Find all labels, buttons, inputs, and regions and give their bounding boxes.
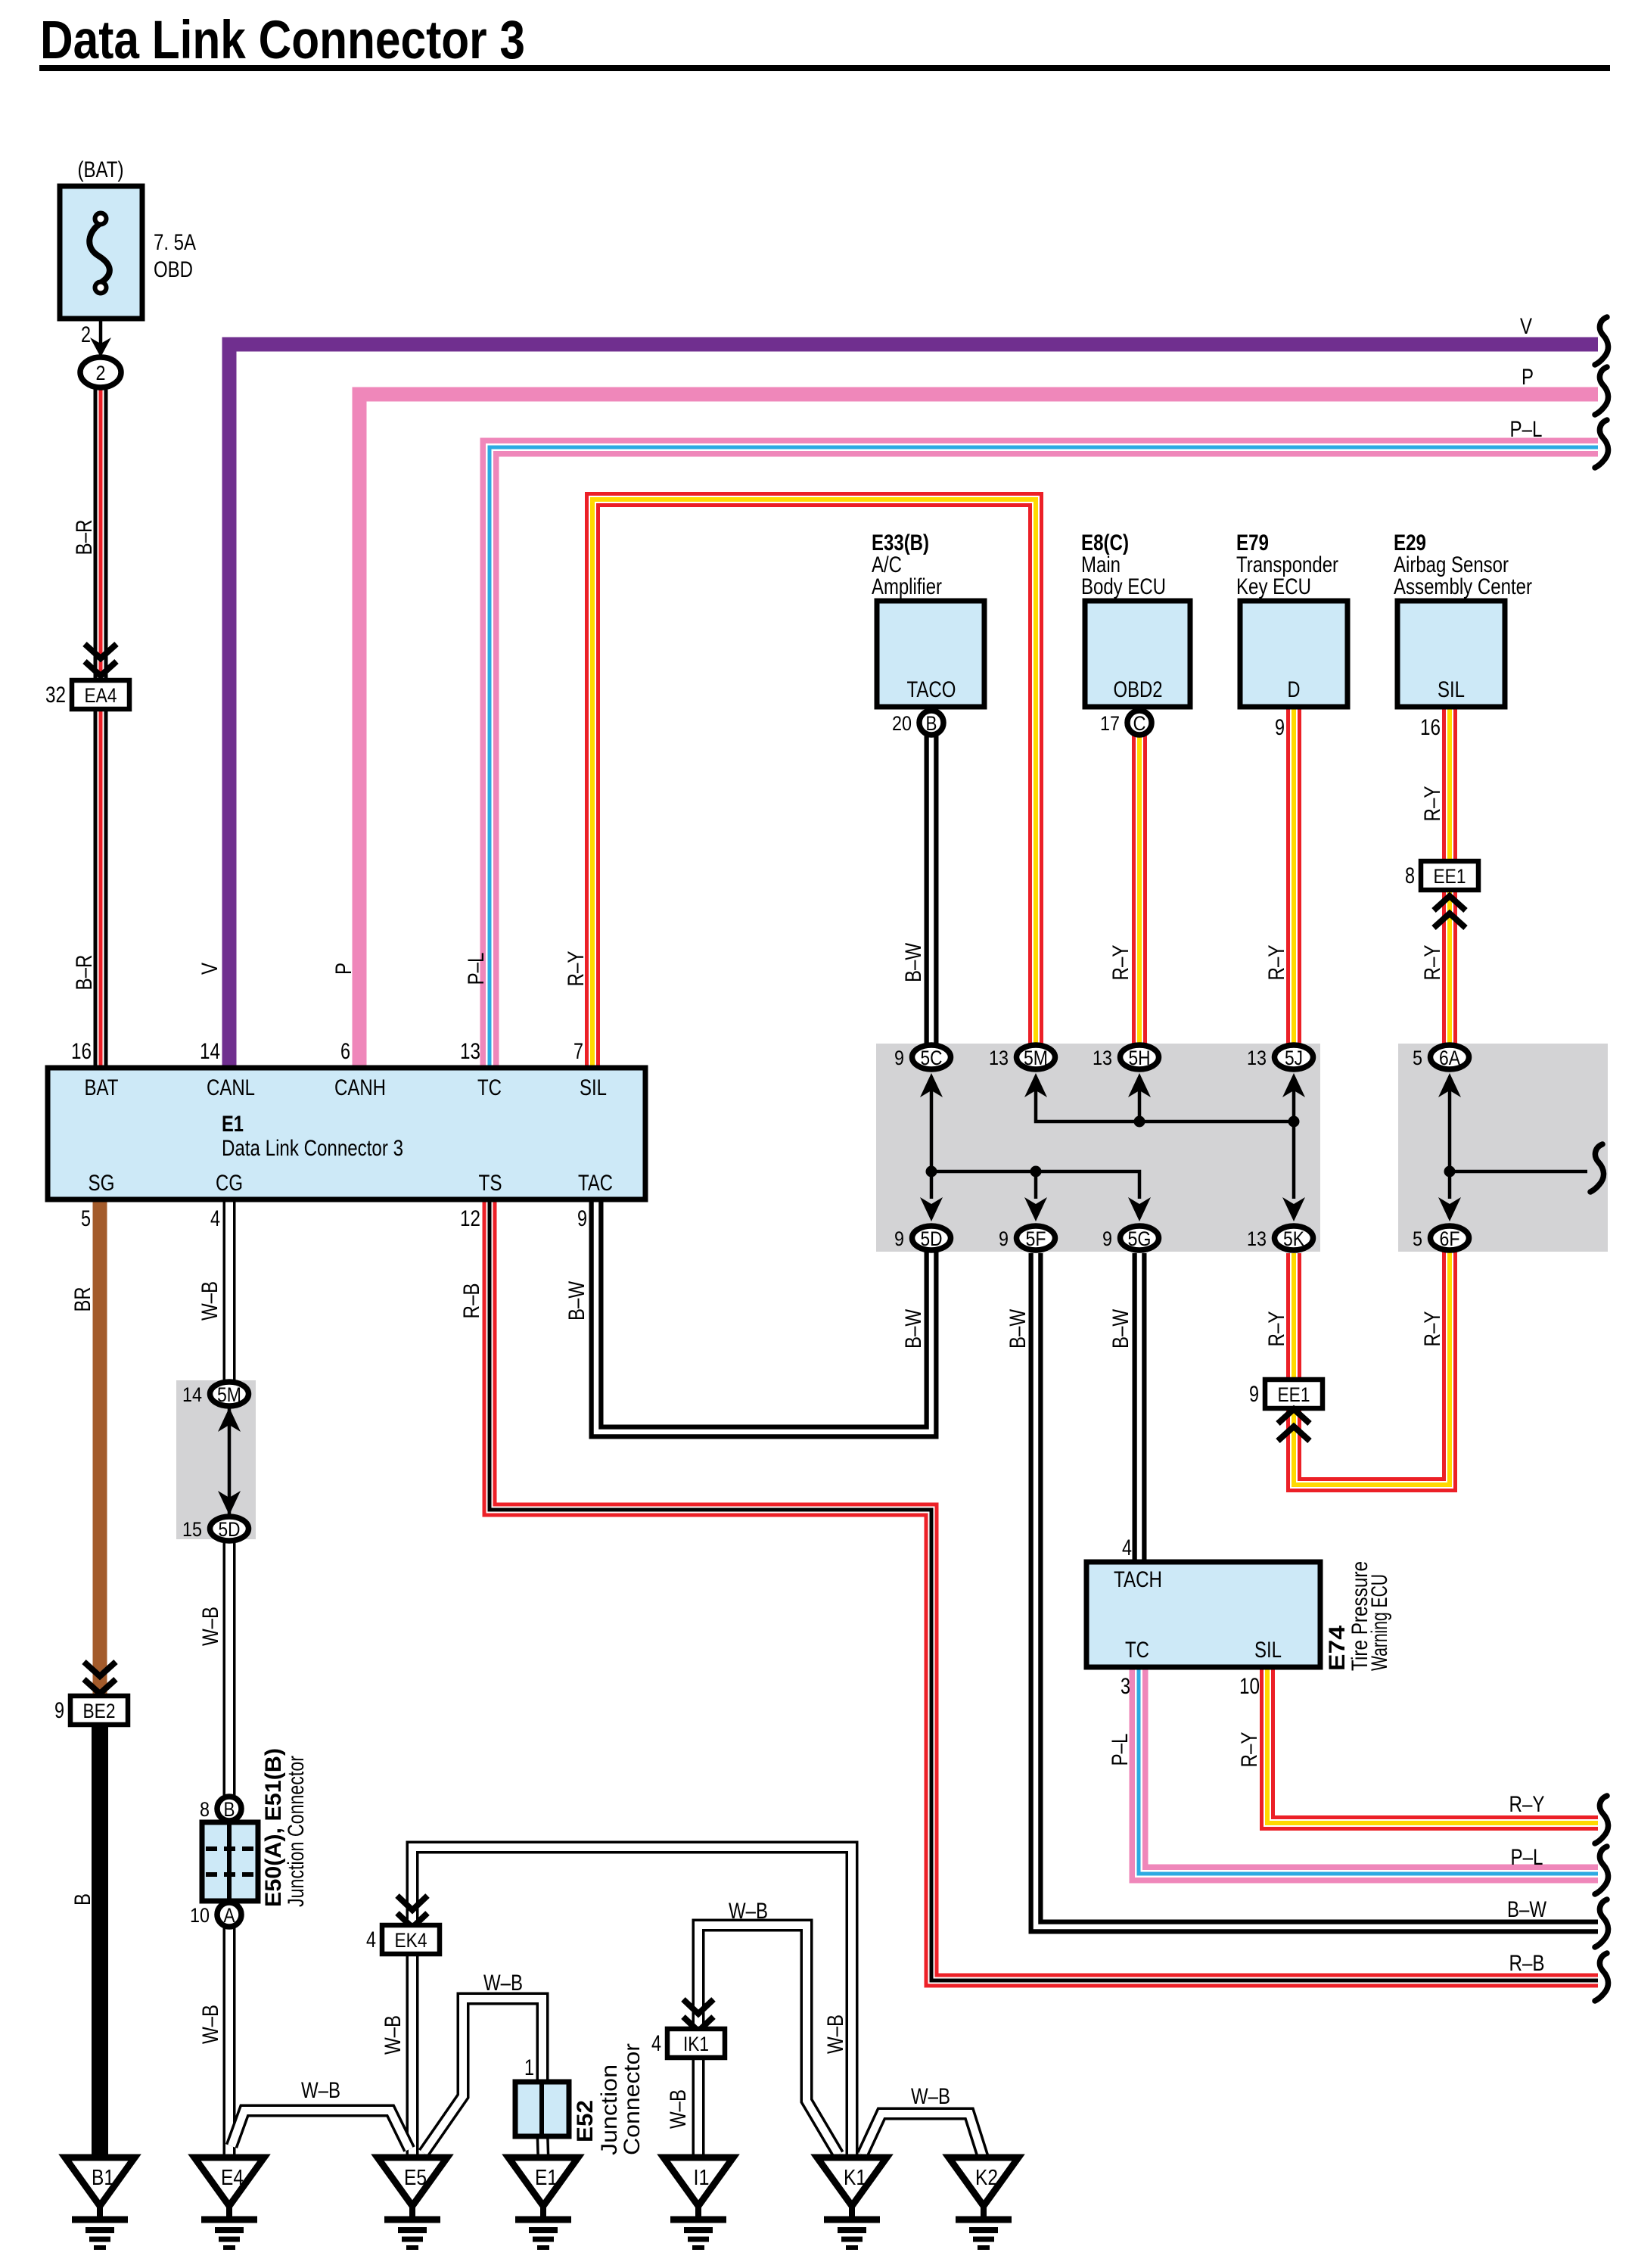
page brace R-Y bbox=[1595, 1796, 1609, 1843]
wire R-Y 5K via EE1 to 6F bbox=[1294, 1249, 1450, 1485]
svg-text:R–Y: R–Y bbox=[1108, 945, 1133, 981]
svg-text:B–W: B–W bbox=[564, 1280, 589, 1321]
svg-text:R–Y: R–Y bbox=[1264, 1311, 1289, 1347]
wire W-B ground E4 to E5 link bbox=[232, 2111, 409, 2149]
arrow into connector 2 bbox=[90, 338, 111, 357]
svg-text:R–B: R–B bbox=[459, 1283, 484, 1319]
svg-text:B: B bbox=[224, 1798, 235, 1821]
svg-text:CANH: CANH bbox=[334, 1075, 386, 1100]
wire P CANH pin 6 to right edge bbox=[359, 394, 1598, 1068]
svg-text:W–B: W–B bbox=[729, 1899, 768, 1924]
svg-text:EA4: EA4 bbox=[85, 684, 117, 707]
svg-text:12: 12 bbox=[460, 1206, 480, 1231]
svg-text:E4: E4 bbox=[221, 2166, 244, 2190]
svg-text:14: 14 bbox=[182, 1383, 202, 1406]
svg-text:B–W: B–W bbox=[901, 1308, 926, 1349]
svg-text:Key ECU: Key ECU bbox=[1236, 574, 1311, 599]
chevron arrows below EE1 (8) bbox=[1434, 896, 1466, 910]
wire B-R EA4 to E1 BAT pin 16 bbox=[94, 708, 108, 1068]
svg-text:9: 9 bbox=[894, 1227, 904, 1250]
svg-text:Body ECU: Body ECU bbox=[1081, 574, 1166, 599]
connector 5K bbox=[1275, 1226, 1313, 1250]
svg-text:15: 15 bbox=[182, 1518, 202, 1541]
svg-text:5: 5 bbox=[81, 1206, 91, 1231]
svg-text:1: 1 bbox=[524, 2055, 534, 2080]
svg-text:7. 5A: 7. 5A bbox=[154, 230, 196, 255]
svg-text:4: 4 bbox=[366, 1927, 376, 1952]
wire P-L E74 TC pin 3 to right edge bbox=[1139, 1667, 1598, 1874]
svg-text:9: 9 bbox=[894, 1047, 904, 1069]
ground E1 bbox=[508, 2158, 578, 2206]
svg-text:17: 17 bbox=[1100, 712, 1120, 735]
svg-text:CG: CG bbox=[216, 1171, 243, 1196]
bus link 5C to 5D/5F/5G bbox=[931, 1090, 1139, 1199]
svg-text:SG: SG bbox=[89, 1171, 115, 1196]
bus link 5M to 5H/5J/5K bbox=[1036, 1090, 1294, 1199]
svg-text:R–Y: R–Y bbox=[1420, 945, 1445, 981]
wire R-Y E8 OBD2 pin 17 to 5H bbox=[1132, 736, 1147, 1046]
svg-text:R–B: R–B bbox=[1509, 1951, 1545, 1976]
svg-text:TC: TC bbox=[1125, 1638, 1149, 1663]
svg-text:W–B: W–B bbox=[197, 1281, 222, 1321]
svg-text:14: 14 bbox=[200, 1039, 220, 1064]
svg-text:9: 9 bbox=[577, 1206, 587, 1231]
bus link 6A to 6F with page brace bbox=[1448, 1090, 1452, 1199]
wire W-B I1 via IK1 to K1 link bbox=[698, 1925, 838, 2159]
svg-text:2: 2 bbox=[81, 322, 91, 347]
chevron arrows into IK1 bbox=[683, 1999, 713, 2014]
svg-text:R–Y: R–Y bbox=[1509, 1792, 1545, 1817]
wire V CANL pin 14 to right edge bbox=[229, 344, 1598, 1068]
ground B1 bbox=[65, 2158, 135, 2206]
svg-text:OBD: OBD bbox=[154, 257, 193, 282]
wire W-B E52 to ground E1 bbox=[542, 2134, 543, 2159]
wire R-Y SIL pin 7 to 5M bbox=[592, 499, 1036, 1068]
junction dots bbox=[926, 1166, 937, 1178]
svg-text:Data Link Connector 3: Data Link Connector 3 bbox=[222, 1136, 403, 1161]
svg-text:E50(A), E51(B): E50(A), E51(B) bbox=[261, 1748, 286, 1907]
svg-text:A: A bbox=[224, 1904, 235, 1927]
svg-text:W–B: W–B bbox=[483, 1971, 523, 1996]
ground I1 bbox=[664, 2158, 733, 2206]
svg-text:SIL: SIL bbox=[580, 1075, 607, 1100]
svg-text:TAC: TAC bbox=[578, 1171, 613, 1196]
connector box EK4 bbox=[382, 1925, 440, 1954]
connector 5C bbox=[912, 1045, 951, 1069]
svg-text:6A: 6A bbox=[1439, 1047, 1460, 1069]
page continuation brace (6 line) bbox=[1590, 1144, 1604, 1192]
svg-text:E52: E52 bbox=[573, 2100, 598, 2142]
svg-text:9: 9 bbox=[54, 1698, 64, 1723]
E74 Tire Pressure Warning ECU box bbox=[1086, 1562, 1320, 1667]
svg-text:6: 6 bbox=[340, 1039, 350, 1064]
gray junction area 3 (5M/5D link) bbox=[176, 1380, 256, 1539]
svg-text:BR: BR bbox=[70, 1287, 95, 1312]
chevron arrows into BE2 bbox=[84, 1662, 116, 1676]
svg-text:Connector: Connector bbox=[620, 2043, 645, 2155]
svg-text:V: V bbox=[197, 963, 222, 975]
wire W-B E52 to E5 link bbox=[424, 1999, 542, 2153]
svg-text:B–W: B–W bbox=[1006, 1308, 1030, 1349]
connector circle A (E50-A) bbox=[217, 1902, 241, 1927]
svg-text:9: 9 bbox=[999, 1227, 1009, 1250]
wire B-W 5F to right edge bbox=[1036, 1253, 1598, 1927]
svg-text:B–W: B–W bbox=[901, 942, 926, 982]
page brace R-B bbox=[1595, 1953, 1609, 2001]
svg-text:K1: K1 bbox=[844, 2166, 866, 2190]
svg-text:5D: 5D bbox=[921, 1227, 943, 1250]
connector 5G bbox=[1121, 1226, 1159, 1250]
svg-text:E74: E74 bbox=[1325, 1626, 1350, 1671]
connector 5M(14) bbox=[210, 1382, 249, 1406]
svg-text:4: 4 bbox=[1122, 1535, 1132, 1560]
arrows into 5D 5F 5G 5K bbox=[920, 1197, 943, 1221]
svg-text:P–L: P–L bbox=[1108, 1734, 1133, 1766]
svg-text:2: 2 bbox=[96, 362, 106, 384]
connector 5F bbox=[1017, 1226, 1055, 1250]
svg-text:9: 9 bbox=[1102, 1227, 1112, 1250]
svg-text:5M: 5M bbox=[217, 1383, 241, 1406]
svg-text:R–Y: R–Y bbox=[1264, 945, 1289, 981]
svg-text:W–B: W–B bbox=[198, 2005, 223, 2044]
page brace V bbox=[1595, 317, 1609, 365]
svg-text:Amplifier: Amplifier bbox=[872, 574, 942, 599]
connector box EE1#9 bbox=[1265, 1380, 1323, 1408]
wire W-B CG pin 4 to 5M(14) bbox=[223, 1199, 236, 1383]
svg-text:32: 32 bbox=[45, 683, 66, 708]
wire B-R connector 2 to EA4 bbox=[94, 387, 108, 681]
svg-text:5D: 5D bbox=[219, 1518, 241, 1541]
svg-text:BAT: BAT bbox=[85, 1075, 119, 1100]
ground K1 bbox=[817, 2158, 887, 2206]
svg-text:EE1: EE1 bbox=[1278, 1383, 1310, 1406]
svg-text:B–R: B–R bbox=[72, 955, 97, 991]
ground K2 bbox=[949, 2158, 1018, 2206]
connector 6F bbox=[1431, 1226, 1469, 1250]
svg-text:P–L: P–L bbox=[1511, 1845, 1543, 1870]
svg-text:C: C bbox=[1133, 712, 1146, 735]
svg-text:Junction Connector: Junction Connector bbox=[284, 1756, 309, 1907]
svg-text:IK1: IK1 bbox=[683, 2033, 709, 2055]
svg-text:W–B: W–B bbox=[301, 2078, 340, 2103]
svg-text:Warning ECU: Warning ECU bbox=[1367, 1574, 1392, 1671]
ground E5 bbox=[378, 2158, 447, 2206]
svg-text:W–B: W–B bbox=[666, 2089, 691, 2129]
svg-text:16: 16 bbox=[1420, 715, 1441, 740]
svg-text:SIL: SIL bbox=[1254, 1638, 1282, 1663]
svg-text:13: 13 bbox=[1093, 1047, 1112, 1069]
connector box EA4 bbox=[72, 680, 129, 709]
svg-text:10: 10 bbox=[1239, 1674, 1260, 1699]
svg-text:CANL: CANL bbox=[207, 1075, 255, 1100]
svg-text:SIL: SIL bbox=[1438, 677, 1465, 702]
wire P-L TC pin 13 to right edge bbox=[490, 447, 1598, 1068]
svg-text:K2: K2 bbox=[975, 2166, 998, 2190]
svg-text:EK4: EK4 bbox=[395, 1929, 427, 1952]
svg-text:E1: E1 bbox=[535, 2166, 558, 2190]
page brace P-L low bbox=[1595, 1846, 1609, 1894]
svg-text:W–B: W–B bbox=[911, 2084, 950, 2109]
wire R-Y E29 SIL pin 16 via EE1 to 6A bbox=[1442, 707, 1457, 1046]
wire W-B 5D(15) to junction connector E50/E51 bbox=[223, 1539, 236, 1797]
svg-text:E1: E1 bbox=[222, 1112, 244, 1137]
wire W-B E50/E51 pin 10 to ground E4 bbox=[223, 1927, 236, 2159]
svg-text:5: 5 bbox=[1413, 1047, 1422, 1069]
page brace P-L bbox=[1595, 420, 1609, 468]
svg-text:V: V bbox=[1520, 314, 1532, 339]
svg-text:BE2: BE2 bbox=[83, 1700, 116, 1722]
arrows into 5C 5M 5H 5J bbox=[920, 1073, 943, 1097]
connector box IK1 bbox=[667, 2029, 725, 2058]
svg-text:(BAT): (BAT) bbox=[78, 157, 124, 182]
connector circle B (E50-B) bbox=[217, 1797, 241, 1821]
connector 6A bbox=[1431, 1045, 1469, 1069]
svg-text:4: 4 bbox=[210, 1206, 220, 1231]
wire W-B EK4 branch to grounds E5 and K1 bbox=[412, 1847, 852, 2159]
wire R-B TS pin 12 to right edge bbox=[490, 1199, 1598, 1980]
gray junction area 1 (connector 5 internal links) bbox=[876, 1044, 1320, 1252]
svg-text:9: 9 bbox=[1249, 1382, 1259, 1407]
svg-text:P–L: P–L bbox=[1510, 417, 1543, 442]
connector oval 2 bbox=[80, 357, 121, 387]
gray junction area 2 (connector 6 internal links) bbox=[1398, 1044, 1608, 1252]
connector 5D bbox=[912, 1226, 951, 1250]
chevron arrows into EK4 bbox=[397, 1896, 427, 1910]
svg-text:Assembly Center: Assembly Center bbox=[1394, 574, 1532, 599]
svg-text:I1: I1 bbox=[694, 2166, 710, 2190]
svg-text:Junction: Junction bbox=[597, 2064, 622, 2155]
svg-text:R–Y: R–Y bbox=[1237, 1732, 1262, 1768]
svg-text:10: 10 bbox=[190, 1904, 210, 1927]
chevron arrows below EE1 (9) bbox=[1278, 1409, 1310, 1423]
ground E4 bbox=[194, 2158, 264, 2206]
wire R-Y E79 D pin 9 to 5J bbox=[1286, 707, 1301, 1046]
link 5M(14) to 5D(15) bbox=[228, 1396, 232, 1527]
svg-text:TACH: TACH bbox=[1114, 1567, 1162, 1592]
wire B-W 5G to E74 TACH pin 4 bbox=[1133, 1253, 1147, 1562]
svg-text:OBD2: OBD2 bbox=[1114, 677, 1163, 702]
wire B-W TAC pin 9 to 5D bbox=[596, 1199, 931, 1432]
svg-text:TC: TC bbox=[477, 1075, 502, 1100]
svg-text:3: 3 bbox=[1121, 1674, 1130, 1699]
connector circle C (E8) bbox=[1127, 711, 1152, 735]
wire B-R fuse to connector 2 bbox=[99, 317, 103, 344]
page brace P bbox=[1595, 367, 1609, 415]
svg-text:13: 13 bbox=[460, 1039, 480, 1064]
connector 5M bbox=[1017, 1045, 1055, 1069]
page brace B-W bbox=[1595, 1899, 1609, 1947]
connector box EE1#8 bbox=[1421, 861, 1478, 890]
svg-text:B1: B1 bbox=[92, 2166, 114, 2190]
svg-text:W–B: W–B bbox=[381, 2015, 406, 2055]
svg-text:B–W: B–W bbox=[1108, 1308, 1133, 1349]
svg-text:16: 16 bbox=[71, 1039, 92, 1064]
svg-text:6F: 6F bbox=[1440, 1227, 1460, 1250]
connector box BE2 bbox=[70, 1696, 128, 1725]
connector circle B (E33) bbox=[919, 711, 943, 735]
svg-text:8: 8 bbox=[200, 1798, 210, 1821]
svg-text:TACO: TACO bbox=[907, 677, 956, 702]
svg-text:P: P bbox=[331, 963, 356, 975]
connector 5J bbox=[1275, 1045, 1313, 1069]
wire B-W E33 TACO pin 20 to 5C bbox=[925, 736, 939, 1046]
wire BR SG pin 5 to BE2 bbox=[93, 1199, 107, 1697]
svg-text:8: 8 bbox=[1405, 863, 1415, 888]
svg-text:B: B bbox=[926, 712, 937, 735]
wire R-Y E74 SIL pin 10 to right edge bbox=[1267, 1667, 1598, 1823]
svg-text:4: 4 bbox=[651, 2031, 661, 2056]
svg-text:EE1: EE1 bbox=[1434, 865, 1466, 888]
svg-text:7: 7 bbox=[573, 1039, 583, 1064]
svg-text:9: 9 bbox=[1275, 715, 1285, 740]
svg-text:5G: 5G bbox=[1128, 1227, 1152, 1250]
svg-text:P–L: P–L bbox=[464, 953, 489, 985]
connector 5H bbox=[1121, 1045, 1159, 1069]
svg-text:R–Y: R–Y bbox=[564, 951, 589, 987]
svg-text:R–Y: R–Y bbox=[1420, 1311, 1445, 1347]
svg-text:13: 13 bbox=[1247, 1227, 1267, 1250]
svg-text:TS: TS bbox=[479, 1171, 502, 1196]
svg-text:5H: 5H bbox=[1129, 1047, 1151, 1069]
svg-text:5: 5 bbox=[1413, 1227, 1422, 1250]
svg-text:5J: 5J bbox=[1285, 1047, 1303, 1069]
svg-text:13: 13 bbox=[1247, 1047, 1267, 1069]
wire B BE2 to ground B1 bbox=[92, 1723, 108, 2159]
svg-text:B–R: B–R bbox=[72, 520, 97, 555]
E1 Data Link Connector 3 box bbox=[48, 1068, 645, 1199]
chevron arrows into EA4 bbox=[85, 644, 117, 658]
connector 5D(15) bbox=[210, 1517, 249, 1541]
svg-text:W–B: W–B bbox=[823, 2014, 848, 2054]
svg-text:5M: 5M bbox=[1024, 1047, 1048, 1069]
wire W-B K1 to K2 link bbox=[863, 2114, 984, 2159]
link through E50/E51 bbox=[228, 1809, 232, 1915]
svg-text:W–B: W–B bbox=[198, 1607, 223, 1646]
svg-text:B: B bbox=[70, 1893, 95, 1906]
svg-text:5F: 5F bbox=[1026, 1227, 1046, 1250]
svg-text:Data Link Connector 3: Data Link Connector 3 bbox=[40, 11, 525, 70]
svg-text:5K: 5K bbox=[1283, 1227, 1304, 1250]
svg-text:R–Y: R–Y bbox=[1420, 786, 1445, 822]
svg-text:13: 13 bbox=[989, 1047, 1009, 1069]
svg-text:P: P bbox=[1522, 365, 1534, 390]
svg-text:B–W: B–W bbox=[1507, 1897, 1547, 1922]
svg-text:5C: 5C bbox=[921, 1047, 943, 1069]
svg-text:E5: E5 bbox=[404, 2166, 427, 2190]
svg-text:D: D bbox=[1288, 677, 1301, 702]
svg-text:20: 20 bbox=[892, 712, 912, 735]
